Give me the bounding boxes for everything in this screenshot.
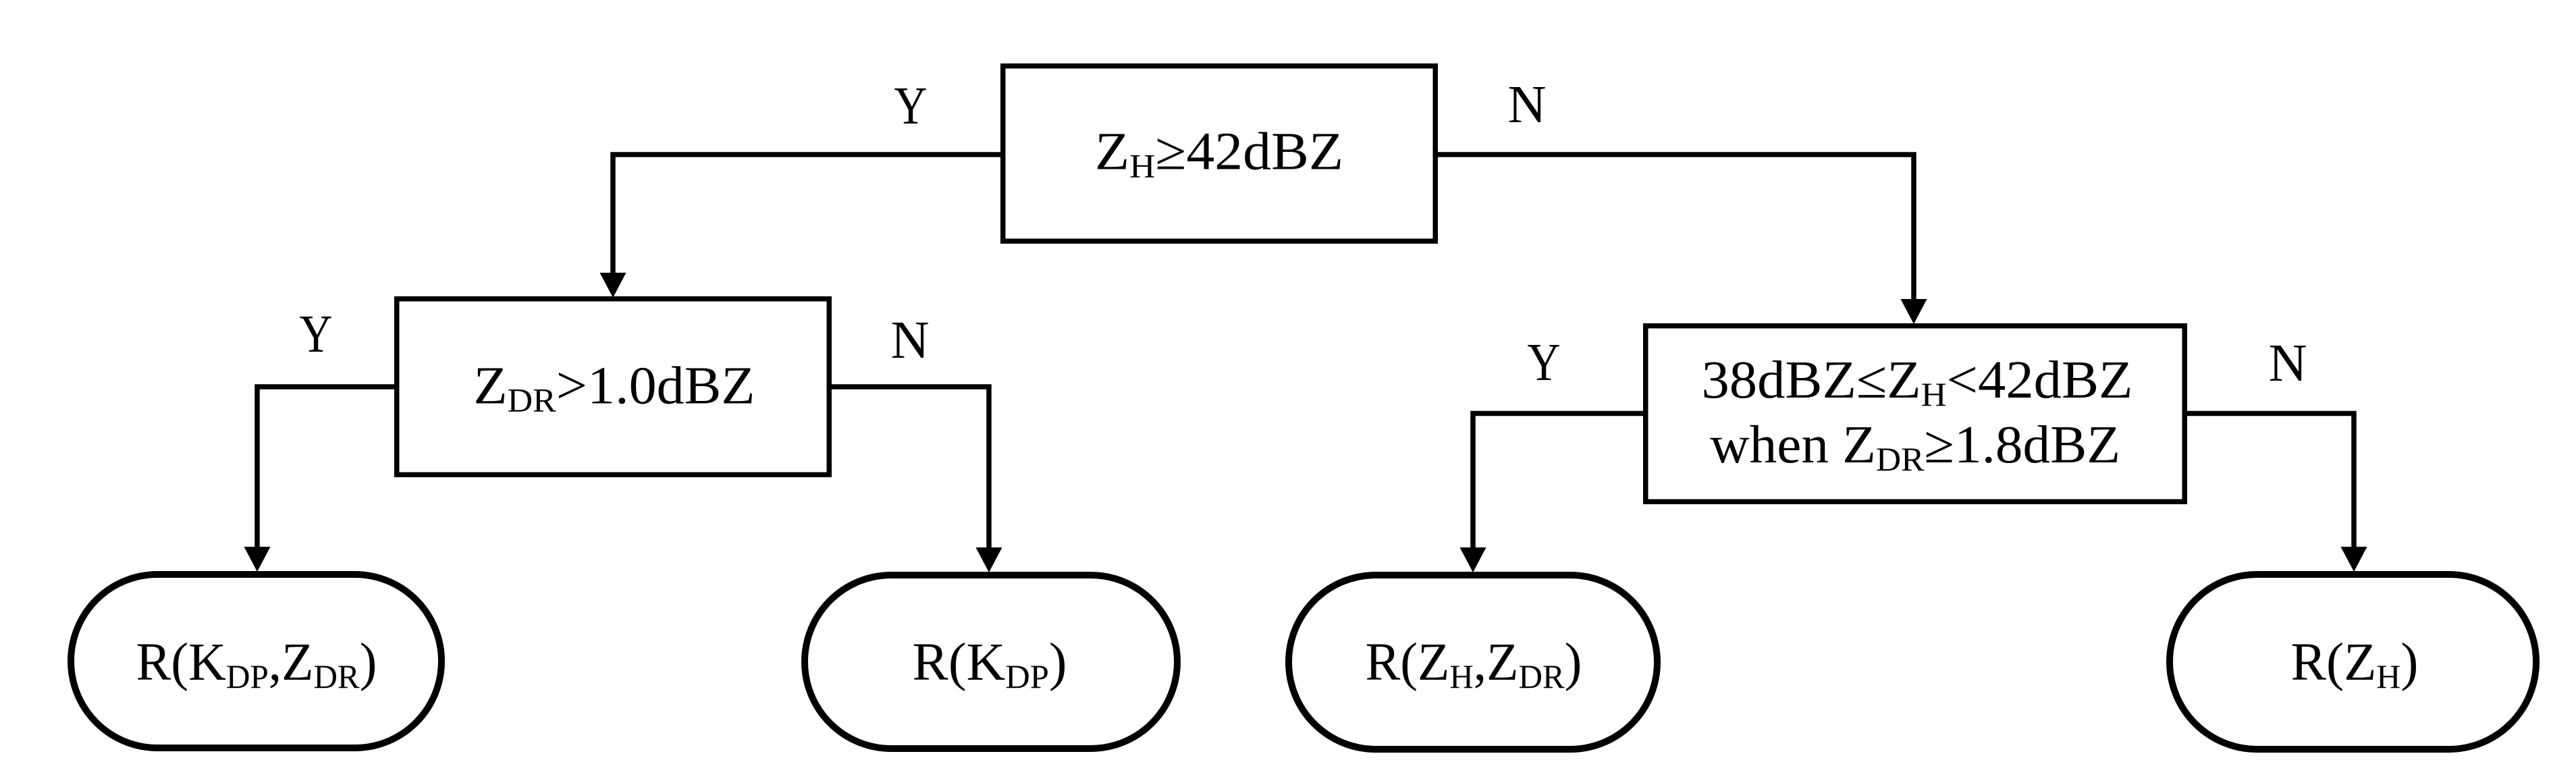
wire: N branch from B1 right to B3 top [1437, 155, 1914, 304]
svg-text:38dBZ≤ZH<42dBZ: 38dBZ≤ZH<42dBZ [1702, 351, 2133, 413]
terminal S2: R(KDP) [805, 575, 1177, 749]
decision box B3: 38dBZ<=ZH<42dBZ when ZDR>=1.8dBZ [1646, 326, 2185, 502]
arrowhead into S1 [244, 547, 271, 572]
terminal S4: R(ZH) [2170, 574, 2536, 749]
arrowhead into S4 [2341, 547, 2367, 572]
svg-text:Y: Y [894, 77, 928, 136]
decision box B1: ZH>=42dBZ [1003, 66, 1436, 242]
terminal S3: R(ZH,ZDR) [1289, 575, 1657, 749]
wire: Y branch from B3 left to terminal S3 [1473, 414, 1646, 553]
wire: Y branch from B1 left to B2 top [613, 155, 1002, 278]
arrowhead into B3 [1901, 299, 1927, 324]
arrowhead into S3 [1460, 547, 1486, 572]
svg-text:N: N [890, 311, 929, 370]
wire: N branch from B3 right to terminal S4 [2184, 414, 2354, 553]
arrowhead into S2 [976, 547, 1002, 572]
svg-text:N: N [1507, 76, 1546, 134]
wire: Y branch from B2 left to terminal S1 [257, 387, 398, 552]
svg-text:N: N [2268, 334, 2307, 393]
wire: N branch from B2 right to terminal S2 [830, 387, 989, 553]
svg-text:Y: Y [300, 305, 333, 364]
terminal S1: R(KDP,ZDR) [71, 574, 441, 748]
svg-text:Y: Y [1528, 333, 1561, 392]
decision box B2: ZDR>1.0dBZ [397, 299, 830, 475]
arrowhead into B2 [600, 273, 626, 298]
